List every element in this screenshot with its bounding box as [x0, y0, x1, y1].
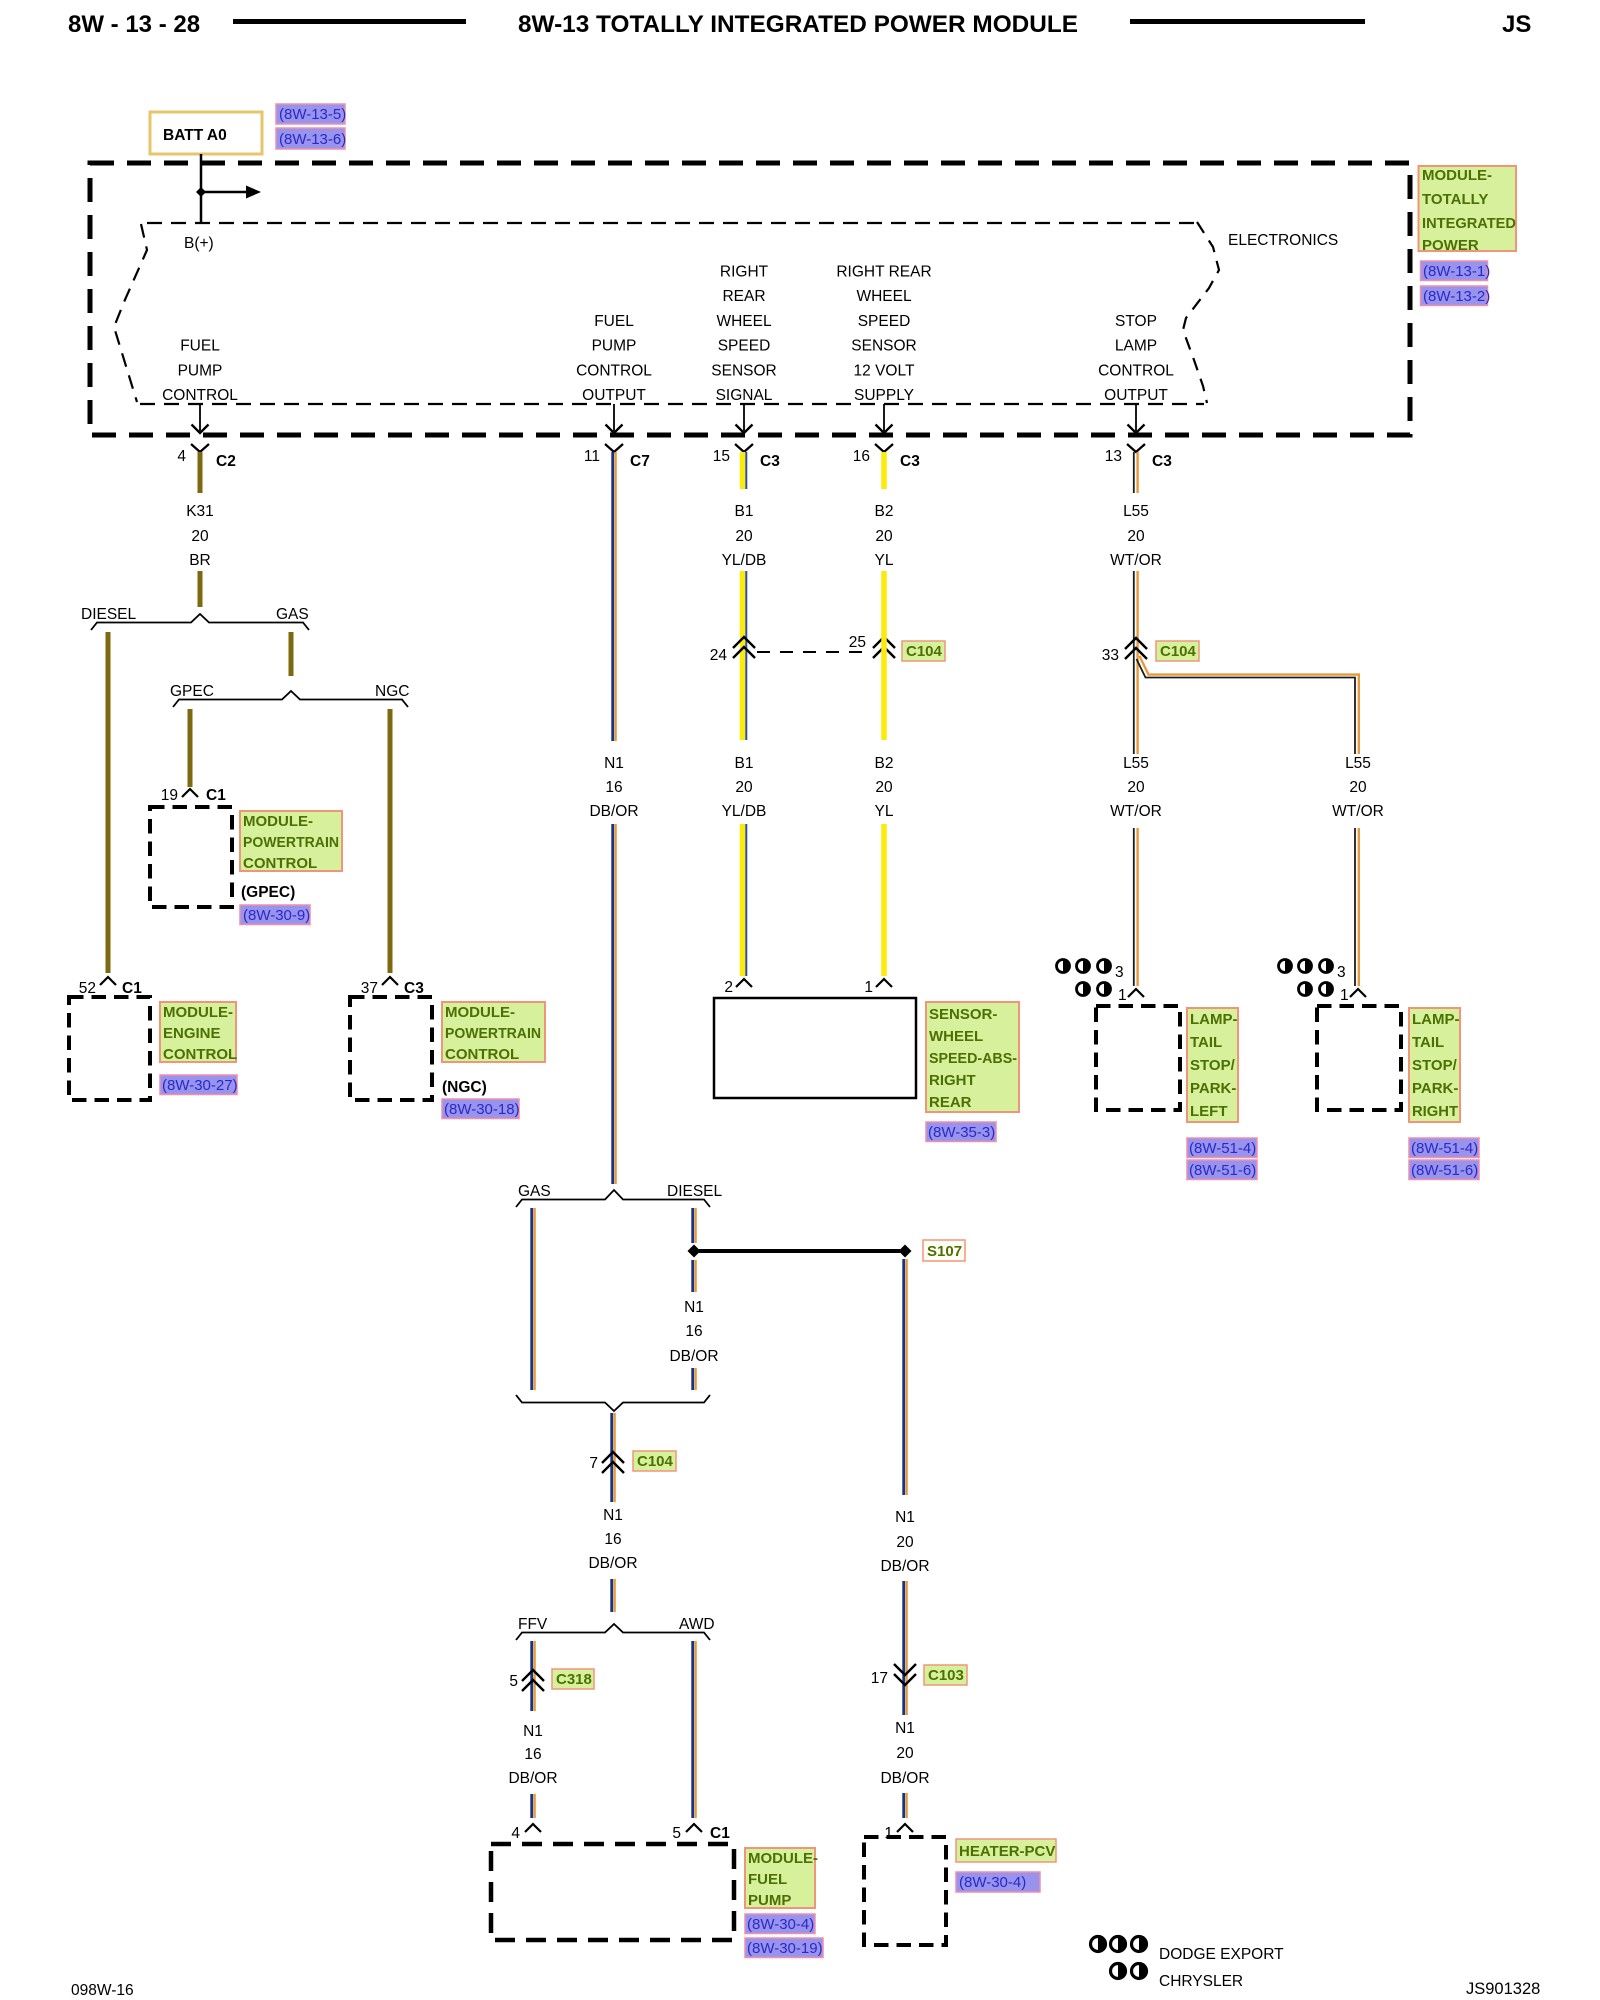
svg-text:S107: S107: [927, 1243, 962, 1260]
wire DIESEL branch DB/OR segment 1: [693, 1208, 696, 1243]
svg-text:20: 20: [1127, 779, 1145, 796]
wire output arrow pin13: [1135, 404, 1137, 431]
svg-text:DB/OR: DB/OR: [588, 1555, 637, 1572]
svg-text:WHEEL: WHEEL: [716, 313, 772, 330]
svg-text:SPEED: SPEED: [858, 313, 911, 330]
svg-text:1: 1: [864, 979, 873, 996]
svg-text:SENSOR-: SENSOR-: [929, 1006, 997, 1023]
ref (8W-13-1): [1421, 261, 1488, 281]
svg-text:YL/DB: YL/DB: [722, 803, 767, 820]
svg-text:SENSOR: SENSOR: [851, 338, 916, 355]
svg-text:2: 2: [724, 979, 733, 996]
wire output arrow pin16: [883, 404, 885, 431]
market icons right lamp row 3: [1279, 960, 1346, 982]
component heater PCV dashed box: [864, 1837, 946, 1945]
svg-text:WT/OR: WT/OR: [1332, 803, 1384, 820]
svg-text:C3: C3: [1152, 453, 1172, 470]
wire L55 20 WT/OR left lamp segment 4: [1134, 828, 1138, 986]
label SENSOR-WHEEL SPEED-ABS-RIGHT REAR: [926, 1002, 1019, 1112]
svg-text:DB/OR: DB/OR: [508, 1770, 557, 1787]
svg-text:C318: C318: [556, 1671, 592, 1688]
svg-text:1: 1: [884, 1825, 893, 1842]
wire GPEC branch BR: [188, 709, 193, 787]
svg-text:16: 16: [604, 1531, 621, 1548]
connector C103 pin 17: [894, 1664, 916, 1675]
wire B2 20 YL segment 2: [881, 571, 887, 740]
svg-text:DODGE EXPORT: DODGE EXPORT: [1159, 1946, 1284, 1963]
wire B1 20 YL/DB segment 2: [743, 571, 747, 740]
svg-text:C104: C104: [906, 643, 943, 660]
svg-text:(8W-35-3): (8W-35-3): [928, 1124, 995, 1141]
label LAMP-TAIL STOP/PARK-RIGHT: [1409, 1008, 1460, 1122]
module inner dashed boundary top: [147, 222, 1196, 224]
svg-text:RIGHT REAR: RIGHT REAR: [836, 264, 931, 281]
svg-text:TAIL: TAIL: [1190, 1034, 1222, 1051]
svg-text:LAMP: LAMP: [1115, 338, 1157, 355]
svg-text:15: 15: [713, 448, 730, 465]
svg-text:FUEL: FUEL: [180, 338, 220, 355]
market icons right lamp row 1: [1299, 983, 1349, 1005]
svg-text:16: 16: [853, 448, 870, 465]
svg-text:RIGHT: RIGHT: [929, 1072, 976, 1089]
svg-text:K31: K31: [186, 503, 214, 520]
ref (8W-13-6): [276, 128, 345, 149]
ref (8W-13-2): [1421, 286, 1488, 306]
svg-text:SUPPLY: SUPPLY: [854, 387, 914, 404]
svg-text:19: 19: [161, 787, 178, 804]
wire N1 16 DB/OR segment 1: [613, 452, 616, 741]
pin 11 connector C7: [605, 444, 623, 452]
svg-text:4: 4: [511, 1825, 520, 1842]
market icons left lamp row 1: [1077, 983, 1127, 1005]
wire heater DB/OR segment 4: [904, 1793, 907, 1818]
svg-text:FFV: FFV: [518, 1616, 548, 1633]
svg-text:L55: L55: [1123, 755, 1149, 772]
svg-text:CONTROL: CONTROL: [163, 1046, 237, 1063]
svg-text:B2: B2: [875, 503, 894, 520]
splice bracket FFV/AWD: [516, 1624, 710, 1640]
pin 5 C1 fuel pump module: [686, 1824, 702, 1832]
svg-text:3: 3: [1337, 964, 1346, 981]
pin 16 connector C3: [875, 444, 893, 452]
svg-text:MODULE-: MODULE-: [1422, 167, 1492, 184]
svg-text:CONTROL: CONTROL: [243, 855, 317, 872]
svg-text:3: 3: [1115, 964, 1124, 981]
wire B2 20 YL segment 4: [881, 824, 887, 976]
svg-text:PARK-: PARK-: [1190, 1080, 1236, 1097]
pin 1 wheel speed sensor: [876, 979, 892, 987]
svg-text:37: 37: [361, 980, 378, 997]
svg-text:C1: C1: [122, 980, 142, 997]
svg-text:N1: N1: [684, 1299, 704, 1316]
svg-text:WT/OR: WT/OR: [1110, 803, 1162, 820]
label MODULE-POWERTRAIN CONTROL (GPEC): [240, 811, 342, 871]
ref (8W-51-4) right: [1409, 1138, 1479, 1158]
wire FFV branch DB/OR: [532, 1641, 535, 1711]
svg-text:ELECTRONICS: ELECTRONICS: [1228, 232, 1338, 249]
svg-text:B1: B1: [735, 755, 754, 772]
svg-text:CONTROL: CONTROL: [1098, 362, 1174, 379]
svg-text:TOTALLY: TOTALLY: [1422, 191, 1488, 208]
wire output arrow pin15: [743, 404, 745, 431]
legend market icons chrysler: [1111, 1964, 1147, 1979]
pin 37 C3 PCM: [382, 977, 398, 985]
svg-text:(8W-30-4): (8W-30-4): [959, 1874, 1026, 1891]
connector C104 pin 7: [602, 1452, 624, 1463]
ref (8W-30-18): [442, 1099, 519, 1119]
svg-text:LAMP-: LAMP-: [1412, 1011, 1460, 1028]
svg-text:LEFT: LEFT: [1190, 1103, 1228, 1120]
wire B2 20 YL segment 1: [881, 452, 887, 489]
pin 4 fuel pump module: [525, 1824, 541, 1832]
pin 1 heater: [897, 1824, 913, 1832]
svg-text:1: 1: [1118, 987, 1127, 1004]
svg-text:20: 20: [896, 1745, 914, 1762]
svg-text:PARK-: PARK-: [1412, 1080, 1458, 1097]
svg-text:SIGNAL: SIGNAL: [716, 387, 773, 404]
splice S107 left junction: [688, 1245, 701, 1258]
svg-text:(8W-30-9): (8W-30-9): [243, 907, 310, 924]
svg-text:BR: BR: [189, 552, 211, 569]
svg-text:PUMP: PUMP: [592, 338, 637, 355]
wire S107 to heater DB/OR segment 1: [904, 1259, 907, 1495]
ref (8W-30-9): [240, 905, 310, 925]
svg-text:DB/OR: DB/OR: [669, 1348, 718, 1365]
svg-text:AWD: AWD: [679, 1616, 715, 1633]
module U2 powertrain control GPEC dashed box: [150, 807, 232, 907]
svg-text:POWERTRAIN: POWERTRAIN: [243, 834, 339, 851]
svg-text:NGC: NGC: [375, 683, 409, 700]
wire N1 16 DB/OR segment 2: [613, 824, 616, 1184]
svg-text:(8W-30-18): (8W-30-18): [444, 1101, 520, 1118]
module inner dashed boundary left zigzag: [114, 224, 147, 402]
label HEATER-PCV: [956, 1839, 1056, 1862]
module U1 TIPM outer dashed boundary: [90, 163, 1410, 435]
wire L55 20 WT/OR segment 2: [1134, 571, 1138, 754]
svg-text:GAS: GAS: [518, 1183, 551, 1200]
connector C104 pin 33: [1125, 638, 1147, 649]
header left rule: [233, 19, 466, 24]
svg-text:DIESEL: DIESEL: [81, 606, 137, 623]
wire N1 16 DB/OR to FFV bracket: [612, 1579, 615, 1612]
svg-text:(8W-30-4): (8W-30-4): [747, 1916, 814, 1933]
svg-text:(GPEC): (GPEC): [241, 884, 295, 901]
ref (8W-30-4): [745, 1914, 815, 1934]
svg-text:12 VOLT: 12 VOLT: [854, 362, 915, 379]
svg-text:20: 20: [1127, 528, 1145, 545]
svg-text:DB/OR: DB/OR: [880, 1770, 929, 1787]
pin 13 connector C3: [1127, 444, 1145, 452]
wire NGC branch BR: [388, 709, 393, 973]
wire K31 20 BR segment 1: [198, 452, 203, 493]
svg-text:C1: C1: [710, 1825, 730, 1842]
wire splice S107 link: [699, 1249, 900, 1253]
svg-text:CHRYSLER: CHRYSLER: [1159, 1973, 1243, 1990]
svg-text:PUMP: PUMP: [748, 1892, 791, 1909]
svg-text:C2: C2: [216, 453, 236, 470]
svg-text:C103: C103: [928, 1667, 964, 1684]
connector C104 link dashed: [757, 651, 869, 653]
svg-text:C104: C104: [1160, 643, 1197, 660]
svg-text:OUTPUT: OUTPUT: [582, 387, 646, 404]
svg-text:STOP/: STOP/: [1190, 1057, 1236, 1074]
ref (8W-51-6) left: [1187, 1160, 1257, 1180]
svg-text:FUEL: FUEL: [594, 313, 634, 330]
svg-text:SPEED-ABS-: SPEED-ABS-: [929, 1050, 1017, 1067]
ref (8W-51-6) right: [1409, 1160, 1479, 1180]
svg-text:24: 24: [710, 647, 728, 664]
svg-text:16: 16: [524, 1746, 541, 1763]
svg-text:20: 20: [735, 528, 753, 545]
wire output arrow pin11: [613, 404, 615, 431]
module U4 powertrain control NGC dashed box: [350, 997, 432, 1100]
node B(+) junction: [196, 187, 206, 197]
svg-text:STOP: STOP: [1115, 313, 1157, 330]
svg-text:PUMP: PUMP: [178, 362, 223, 379]
module label MODULE-TOTALLY INTEGRATED POWER: [1419, 166, 1517, 251]
module inner dashed boundary bottom: [140, 403, 1204, 405]
pin 52 C1 ECM: [100, 977, 116, 985]
component wheel speed sensor box: [714, 998, 916, 1098]
wire S107 to heater DB/OR segment 2: [904, 1581, 907, 1715]
svg-text:098W-16: 098W-16: [71, 1982, 134, 1999]
svg-text:RIGHT: RIGHT: [1412, 1103, 1458, 1120]
wire GAS branch BR: [289, 632, 294, 676]
wire B1 20 YL/DB segment 1: [743, 452, 747, 489]
pin 1 right lamp: [1350, 989, 1366, 997]
svg-text:52: 52: [79, 980, 96, 997]
svg-text:MODULE-: MODULE-: [748, 1850, 818, 1867]
svg-text:8W-13 TOTALLY INTEGRATED POWER: 8W-13 TOTALLY INTEGRATED POWER MODULE: [518, 11, 1078, 38]
svg-text:SPEED: SPEED: [718, 338, 771, 355]
legend market icons dodge export: [1091, 1937, 1147, 1952]
svg-text:CONTROL: CONTROL: [445, 1046, 519, 1063]
battery feed box BATT A0: [150, 112, 262, 154]
svg-text:YL: YL: [875, 552, 894, 569]
svg-text:C7: C7: [630, 453, 650, 470]
label S107: [923, 1240, 965, 1261]
svg-text:16: 16: [685, 1323, 702, 1340]
label MODULE-FUEL PUMP: [745, 1848, 815, 1908]
label LAMP-TAIL STOP/PARK-LEFT: [1187, 1008, 1238, 1122]
wire N1 16 DB/OR to C104: [612, 1413, 615, 1502]
module U3 engine control dashed box: [69, 997, 150, 1100]
pin 15 connector C3: [735, 444, 753, 452]
splice bracket DIESEL/GAS: [91, 614, 309, 630]
component lamp right dashed box: [1317, 1006, 1401, 1110]
svg-text:20: 20: [1349, 779, 1367, 796]
svg-text:DB/OR: DB/OR: [589, 803, 638, 820]
svg-text:B1: B1: [735, 503, 754, 520]
ref (8W-30-19): [745, 1938, 823, 1958]
svg-text:POWERTRAIN: POWERTRAIN: [445, 1025, 541, 1042]
svg-text:FUEL: FUEL: [748, 1871, 787, 1888]
wire FFV to pin 4: [532, 1794, 535, 1818]
svg-text:TAIL: TAIL: [1412, 1034, 1444, 1051]
wire B1 20 YL/DB segment 4: [743, 824, 747, 976]
svg-text:5: 5: [672, 1825, 681, 1842]
svg-text:JS: JS: [1502, 11, 1531, 38]
wire DIESEL branch BR: [106, 632, 111, 973]
label MODULE-ENGINE CONTROL: [160, 1002, 236, 1062]
wire branch to right lamp diagonal: [1137, 656, 1359, 754]
svg-text:20: 20: [735, 779, 753, 796]
wire DIESEL branch DB/OR segment 2: [693, 1260, 696, 1292]
svg-text:20: 20: [875, 779, 893, 796]
svg-text:N1: N1: [604, 755, 624, 772]
label MODULE-POWERTRAIN CONTROL (NGC): [442, 1002, 545, 1062]
label C104: [902, 641, 945, 661]
svg-text:(8W-30-19): (8W-30-19): [747, 1940, 823, 1957]
svg-text:WHEEL: WHEEL: [856, 288, 912, 305]
svg-text:25: 25: [849, 634, 866, 651]
svg-text:4: 4: [177, 448, 186, 465]
ref (8W-30-4) heater: [956, 1872, 1040, 1892]
svg-text:13: 13: [1105, 448, 1122, 465]
connector C318 pin 5: [522, 1670, 544, 1681]
svg-text:DIESEL: DIESEL: [667, 1183, 723, 1200]
market icons left lamp row 3: [1057, 960, 1124, 982]
svg-text:N1: N1: [523, 1723, 543, 1740]
svg-text:WT/OR: WT/OR: [1110, 552, 1162, 569]
connector C104 pin 24: [733, 637, 755, 648]
pin 1 left lamp: [1128, 989, 1144, 997]
merge bracket GAS+DIESEL: [516, 1395, 710, 1411]
wire battery B(+) feed: [200, 154, 203, 222]
svg-text:(NGC): (NGC): [442, 1079, 487, 1096]
svg-text:C1: C1: [206, 787, 226, 804]
svg-text:33: 33: [1102, 647, 1119, 664]
svg-text:7: 7: [589, 1455, 598, 1472]
ref (8W-13-5): [276, 104, 345, 124]
svg-text:REAR: REAR: [722, 288, 765, 305]
svg-text:(8W-51-4): (8W-51-4): [1411, 1140, 1478, 1157]
svg-text:WHEEL: WHEEL: [929, 1028, 983, 1045]
component lamp left dashed box: [1096, 1006, 1180, 1110]
svg-text:RIGHT: RIGHT: [720, 264, 769, 281]
svg-text:16: 16: [605, 779, 622, 796]
ref (8W-35-3): [926, 1122, 996, 1142]
svg-text:BATT A0: BATT A0: [163, 127, 227, 144]
svg-text:ENGINE: ENGINE: [163, 1025, 221, 1042]
ref (8W-30-27): [160, 1075, 237, 1095]
module U5 fuel pump dashed box: [491, 1844, 734, 1940]
connector C104 pin 25: [873, 637, 895, 648]
wire K31 20 BR segment 2: [198, 571, 203, 607]
header right rule: [1130, 19, 1365, 24]
module inner dashed boundary right zigzag: [1183, 222, 1219, 403]
wire right lamp segment 2: [1355, 828, 1359, 986]
svg-text:(8W-51-6): (8W-51-6): [1411, 1162, 1478, 1179]
svg-text:SENSOR: SENSOR: [711, 362, 776, 379]
svg-text:(8W-51-6): (8W-51-6): [1189, 1162, 1256, 1179]
svg-text:LAMP-: LAMP-: [1190, 1011, 1238, 1028]
pin 2 wheel speed sensor: [736, 979, 752, 987]
svg-text:5: 5: [509, 1673, 518, 1690]
svg-text:MODULE-: MODULE-: [445, 1004, 515, 1021]
svg-text:(8W-13-5): (8W-13-5): [279, 106, 346, 123]
svg-text:N1: N1: [895, 1720, 915, 1737]
svg-text:GAS: GAS: [276, 606, 309, 623]
svg-text:N1: N1: [895, 1509, 915, 1526]
svg-text:(8W-13-1): (8W-13-1): [1423, 263, 1490, 280]
svg-text:(8W-13-6): (8W-13-6): [279, 131, 346, 148]
wire GAS branch DB/OR: [532, 1208, 535, 1390]
svg-text:YL: YL: [875, 803, 894, 820]
svg-text:11: 11: [584, 448, 600, 465]
svg-text:POWER: POWER: [1422, 237, 1479, 254]
svg-text:C3: C3: [900, 453, 920, 470]
svg-text:INTEGRATED: INTEGRATED: [1422, 215, 1516, 232]
wire output arrow pin4: [199, 404, 201, 431]
svg-text:OUTPUT: OUTPUT: [1104, 387, 1168, 404]
svg-text:C3: C3: [404, 980, 424, 997]
splice bracket GAS/DIESEL: [516, 1190, 710, 1207]
svg-text:L55: L55: [1123, 503, 1149, 520]
svg-text:CONTROL: CONTROL: [162, 387, 238, 404]
wire AWD branch DB/OR: [693, 1641, 696, 1818]
svg-text:(8W-13-2): (8W-13-2): [1423, 288, 1490, 305]
svg-text:JS901328: JS901328: [1466, 1980, 1540, 1998]
svg-text:20: 20: [191, 528, 209, 545]
svg-text:CONTROL: CONTROL: [576, 362, 652, 379]
svg-text:HEATER-PCV: HEATER-PCV: [959, 1843, 1055, 1860]
svg-text:REAR: REAR: [929, 1094, 972, 1111]
wire L55 20 WT/OR segment 1: [1134, 452, 1138, 493]
svg-text:1: 1: [1340, 987, 1349, 1004]
svg-text:YL/DB: YL/DB: [722, 552, 767, 569]
svg-text:8W - 13 - 28: 8W - 13 - 28: [68, 11, 200, 38]
svg-text:20: 20: [896, 1534, 914, 1551]
svg-text:C3: C3: [760, 453, 780, 470]
splice S107 right junction: [899, 1245, 912, 1258]
svg-text:B2: B2: [875, 755, 894, 772]
svg-text:B(+): B(+): [184, 235, 214, 252]
svg-text:(8W-51-4): (8W-51-4): [1189, 1140, 1256, 1157]
svg-text:MODULE-: MODULE-: [163, 1004, 233, 1021]
svg-text:DB/OR: DB/OR: [880, 1558, 929, 1575]
wire DIESEL branch DB/OR segment 3: [693, 1368, 696, 1390]
svg-text:(8W-30-27): (8W-30-27): [162, 1077, 238, 1094]
pin 4 connector C2: [191, 444, 209, 452]
svg-text:STOP/: STOP/: [1412, 1057, 1458, 1074]
ref (8W-51-4) left: [1187, 1138, 1257, 1158]
wire internal bus arrow: [201, 191, 246, 194]
svg-text:L55: L55: [1345, 755, 1371, 772]
svg-text:C104: C104: [637, 1453, 674, 1470]
pin 19 C1 GPEC: [182, 789, 198, 797]
svg-text:GPEC: GPEC: [170, 683, 214, 700]
splice bracket GPEC/NGC: [173, 691, 408, 707]
svg-text:20: 20: [875, 528, 893, 545]
svg-text:MODULE-: MODULE-: [243, 813, 313, 830]
svg-text:17: 17: [871, 1670, 888, 1687]
svg-text:N1: N1: [603, 1507, 623, 1524]
